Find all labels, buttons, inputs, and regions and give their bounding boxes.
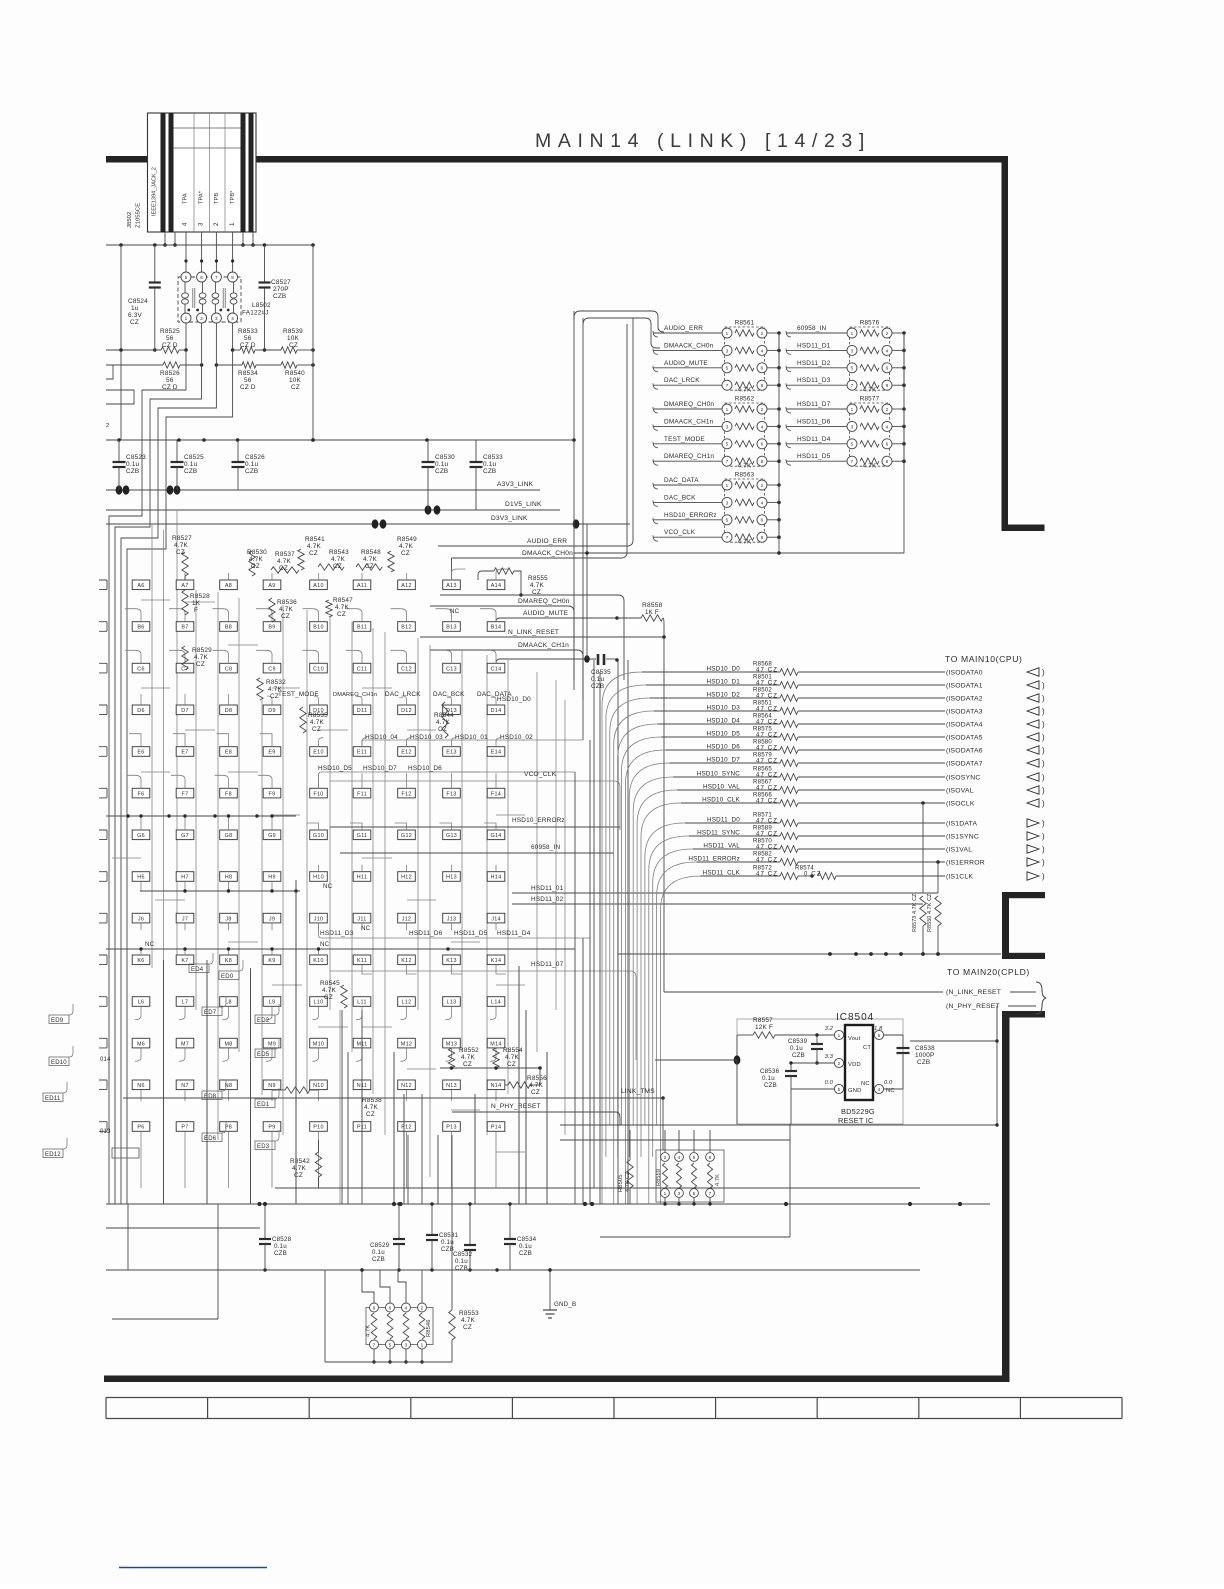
svg-text:R8533: R8533 (238, 328, 258, 335)
wire HSD10_D2 resistor R8502 47 CZ to ISODATA2 (610, 698, 650, 1125)
svg-text:1000P: 1000P (915, 1052, 934, 1059)
svg-text:47 CZ: 47 CZ (756, 871, 778, 878)
pin E13 (443, 747, 461, 757)
svg-text:2: 2 (838, 1061, 841, 1066)
wire HSD11_CLK resistor R8572 47 CZ to IS1CLK (661, 876, 701, 1204)
pin H14 (487, 872, 505, 882)
pin B14 (487, 622, 505, 632)
svg-text:3: 3 (851, 348, 854, 353)
svg-text:HSD10_D6: HSD10_D6 (408, 765, 442, 772)
svg-text:P12: P12 (401, 1125, 412, 1131)
pin E8 (220, 747, 238, 757)
svg-text:R8539: R8539 (283, 328, 303, 335)
svg-text:4.7K: 4.7K (399, 543, 413, 550)
svg-text:ED6: ED6 (204, 1136, 217, 1142)
svg-text:HSD10_ERRORz: HSD10_ERRORz (512, 817, 565, 824)
pin B12 (398, 622, 416, 632)
svg-text:CZ: CZ (401, 550, 410, 557)
pin D11 (353, 705, 371, 715)
svg-text:4: 4 (761, 500, 764, 505)
resistor R8548 4.7K CZ (356, 564, 382, 570)
capacitor C8523 0.1u CZB (118, 440, 120, 461)
wire AUDIO_ERR (438, 545, 627, 547)
wire lower bus verticals (163, 960, 165, 1204)
pin H13 (443, 872, 461, 882)
svg-text:R8536: R8536 (277, 599, 297, 606)
connector brace to MAIN20 (1036, 982, 1046, 1014)
svg-text:4.7K: 4.7K (307, 543, 321, 550)
svg-text:N6: N6 (137, 1083, 145, 1089)
svg-text:(IS1VAL: (IS1VAL (946, 847, 972, 854)
svg-text:F12: F12 (401, 791, 411, 797)
svg-text:H9: H9 (268, 875, 276, 881)
svg-text:4: 4 (761, 348, 764, 353)
svg-text:C11: C11 (357, 666, 367, 672)
svg-text:60958_IN: 60958_IN (797, 325, 827, 332)
wire M13 M14 node rail (440, 1067, 540, 1069)
wire HSD11_D0 resistor R8571 47 CZ to IS1DATA (645, 823, 685, 1125)
svg-text:R8576: R8576 (860, 320, 880, 327)
pin F7 (176, 788, 194, 798)
resistor R8543 4.7K CZ (318, 564, 344, 570)
resistor R8538 4.7K CZ (272, 1089, 285, 1091)
R8546 element pin 6-5 (386, 1303, 395, 1312)
svg-text:L13: L13 (447, 1000, 457, 1006)
svg-text:6: 6 (200, 275, 203, 280)
svg-text:6: 6 (389, 1305, 392, 1310)
pin M13 (443, 1038, 461, 1048)
svg-text:4.7K: 4.7K (277, 558, 291, 565)
pin D13 (443, 705, 461, 715)
svg-text:CZB: CZB (483, 468, 496, 475)
svg-text:(IS1ERROR: (IS1ERROR (946, 860, 985, 867)
svg-text:R8543: R8543 (329, 549, 349, 556)
label ED3 (255, 1141, 275, 1150)
pin B9 (263, 622, 281, 632)
svg-text:AUDIO_ERR: AUDIO_ERR (527, 538, 567, 545)
pin N13 (443, 1080, 461, 1090)
svg-text:G14: G14 (490, 833, 501, 839)
wire TPA pair staircase (109, 350, 186, 1204)
svg-text:L14: L14 (491, 1000, 501, 1006)
wire left vertical x121 (120, 245, 122, 440)
wire ISOCLK branch to R8573 (921, 801, 925, 805)
svg-text:G8: G8 (225, 833, 233, 839)
svg-text:4.7K: 4.7K (279, 606, 293, 613)
svg-text:5: 5 (851, 442, 854, 447)
svg-text:R8552: R8552 (459, 1047, 479, 1054)
svg-text:6: 6 (886, 442, 889, 447)
svg-text:CZB: CZB (372, 1256, 385, 1263)
svg-text:47 CZ: 47 CZ (756, 798, 778, 805)
svg-text:F: F (194, 607, 198, 614)
svg-text:CZ: CZ (463, 1061, 472, 1068)
svg-text:): ) (1042, 872, 1045, 881)
svg-text:NC: NC (361, 925, 371, 932)
svg-text:D7: D7 (181, 708, 189, 714)
svg-text:CZ: CZ (196, 661, 205, 668)
resistor R8535 4.7K CZ (300, 707, 306, 733)
svg-text:A14: A14 (491, 583, 502, 589)
pin K13 (443, 955, 461, 965)
label ED5 (255, 1049, 275, 1058)
pin J9 (263, 913, 281, 923)
resistor R8553 4.7K CZ (451, 1188, 453, 1310)
svg-text:7: 7 (373, 1342, 376, 1347)
svg-text:4.7K: 4.7K (363, 556, 377, 563)
svg-text:F8: F8 (225, 791, 232, 797)
svg-text:L10: L10 (314, 1000, 324, 1006)
svg-text:1: 1 (838, 1033, 841, 1038)
svg-text:A6: A6 (137, 583, 144, 589)
hyperlink underline (119, 1567, 267, 1569)
svg-text:HSD11_D5: HSD11_D5 (454, 930, 488, 937)
svg-text:J7: J7 (182, 916, 188, 922)
cut box bottom-left (112, 1148, 139, 1158)
svg-text:D12: D12 (401, 708, 412, 714)
svg-text:N13: N13 (446, 1083, 457, 1089)
svg-text:2: 2 (761, 407, 764, 412)
svg-text:P13: P13 (446, 1125, 457, 1131)
svg-text:NC: NC (861, 1081, 870, 1087)
pin C10 (310, 663, 328, 673)
svg-text:TPB: TPB (214, 193, 220, 204)
svg-text:2: 2 (886, 407, 889, 412)
svg-text:CZB: CZB (274, 1250, 287, 1257)
wire HSD10_D0 resistor R8568 47 CZ to ISODATA0 (602, 672, 642, 1204)
wire bus hooks to resistor arrays (574, 311, 664, 332)
wire K-row NC rail (106, 948, 575, 950)
svg-text:1: 1 (229, 222, 236, 226)
label ED10 (49, 1057, 69, 1066)
wire HSD10_D5 resistor R8575 47 CZ to ISODATA5 (622, 737, 662, 1125)
wire DMAREQ_CH0n (430, 605, 568, 607)
svg-text:DAC_BCK: DAC_BCK (664, 494, 696, 501)
svg-text:47 CZ: 47 CZ (756, 667, 778, 674)
wire vertical node x313 (312, 245, 314, 440)
svg-text:2: 2 (761, 483, 764, 488)
svg-text:G13: G13 (446, 833, 457, 839)
resistor R8534 56 CZ D (215, 363, 219, 367)
svg-text:B10: B10 (313, 625, 324, 631)
wire N_PHY route (452, 1111, 616, 1113)
svg-text:H14: H14 (491, 875, 502, 881)
pin P12 (398, 1122, 416, 1132)
svg-text:(ISODATA2: (ISODATA2 (946, 696, 983, 703)
pin E10 (310, 747, 328, 757)
svg-text:K6: K6 (137, 958, 144, 964)
svg-text:DMAACK_CH0n: DMAACK_CH0n (664, 342, 714, 349)
wire bottom-left branch (217, 1204, 219, 1319)
svg-text:E14: E14 (491, 750, 502, 756)
svg-text:D14: D14 (491, 708, 502, 714)
svg-text:HSD11_D1: HSD11_D1 (797, 342, 831, 349)
svg-text:H13: H13 (446, 875, 457, 881)
pin F11 (353, 788, 371, 798)
svg-text:0.1u: 0.1u (126, 461, 139, 468)
svg-text:R8553: R8553 (459, 1310, 479, 1317)
svg-text:L8502: L8502 (252, 302, 271, 309)
svg-text:4.7K CZ: 4.7K CZ (625, 1171, 631, 1192)
svg-text:LINK_TMS: LINK_TMS (621, 1088, 655, 1095)
svg-text:DMAACK_CH1n: DMAACK_CH1n (664, 418, 714, 425)
svg-text:1: 1 (726, 483, 729, 488)
resistor R8556 4.7K CZ (505, 1084, 508, 1086)
svg-text:5: 5 (726, 518, 729, 523)
svg-text:HSD10_ERRORz: HSD10_ERRORz (664, 512, 717, 519)
svg-text:J6: J6 (138, 916, 144, 922)
svg-text:CZ D: CZ D (240, 342, 256, 349)
svg-text:47 CZ: 47 CZ (756, 831, 778, 838)
svg-text:TEST_MODE: TEST_MODE (278, 691, 319, 698)
svg-text:3: 3 (726, 348, 729, 353)
connector J8502 IEEE1394_JACK_2 (148, 113, 257, 232)
svg-text:4.7K: 4.7K (715, 1174, 721, 1186)
pin J8 (220, 913, 238, 923)
svg-text:HSD11_D5: HSD11_D5 (797, 453, 831, 460)
svg-text:0.1u: 0.1u (790, 1045, 803, 1052)
svg-text:ED7: ED7 (204, 1010, 217, 1016)
pin H8 (220, 872, 238, 882)
svg-text:F6: F6 (138, 791, 145, 797)
svg-text:6: 6 (693, 1155, 696, 1160)
svg-text:(ISODATA0: (ISODATA0 (946, 670, 983, 677)
svg-text:J12: J12 (402, 916, 412, 922)
svg-text:56: 56 (244, 377, 252, 384)
svg-text:3: 3 (851, 424, 854, 429)
wire top rail (106, 244, 313, 246)
svg-text:M7: M7 (181, 1041, 189, 1047)
svg-text:D11: D11 (357, 708, 367, 714)
svg-text:R8505: R8505 (618, 1174, 624, 1192)
svg-text:): ) (1042, 668, 1045, 677)
svg-text:CZ: CZ (289, 342, 298, 349)
svg-text:HSD11_SYNC: HSD11_SYNC (697, 830, 740, 837)
border right lower bar (1002, 1011, 1010, 1382)
svg-text:(IS1DATA: (IS1DATA (946, 821, 977, 828)
svg-text:H6: H6 (137, 875, 145, 881)
svg-text:D8: D8 (225, 708, 233, 714)
svg-text:TPA: TPA (183, 193, 189, 204)
R8546 element pin 8-7 (370, 1303, 379, 1312)
IC8504 pin 1 Vout (834, 1030, 843, 1039)
svg-text:47 CZ: 47 CZ (756, 745, 778, 752)
svg-text:0.1u: 0.1u (435, 461, 448, 468)
pin E9 (263, 747, 281, 757)
svg-text:P14: P14 (491, 1125, 502, 1131)
svg-text:J8502: J8502 (127, 212, 133, 228)
svg-text:(ISOSYNC: (ISOSYNC (946, 775, 980, 782)
svg-text:DMAACK_CH1n: DMAACK_CH1n (518, 642, 569, 649)
svg-text:HSD11_D6: HSD11_D6 (409, 930, 443, 937)
wire network bottom rail (325, 1361, 452, 1363)
svg-text:0.1u: 0.1u (519, 1243, 532, 1250)
resistor network R8562 4.7K (725, 403, 765, 466)
svg-text:E8: E8 (225, 750, 232, 756)
svg-text:1: 1 (726, 407, 729, 412)
resistor network R8576 4.7K (850, 327, 890, 390)
svg-text:HSD11_D3: HSD11_D3 (320, 930, 354, 937)
svg-text:56: 56 (244, 335, 252, 342)
label ED9 (49, 1015, 69, 1024)
wire rail y1204 main (106, 1203, 990, 1205)
svg-text:E13: E13 (446, 750, 457, 756)
svg-text:R8528: R8528 (190, 593, 210, 600)
svg-text:N12: N12 (401, 1083, 412, 1089)
svg-text:CZ: CZ (176, 549, 185, 556)
svg-text:F9: F9 (269, 791, 276, 797)
IC8504 pin 6 CT (874, 1030, 883, 1039)
svg-text:7: 7 (726, 459, 729, 464)
svg-text:R8549: R8549 (397, 536, 417, 543)
svg-text:56: 56 (166, 335, 174, 342)
svg-text:DAC_BCK: DAC_BCK (433, 691, 465, 698)
svg-text:4.7K: 4.7K (322, 987, 336, 994)
resistor R8526 56 CZ D (200, 363, 204, 367)
svg-text:C12: C12 (401, 666, 412, 672)
resistor R8554 4.7K CZ (493, 1048, 499, 1068)
svg-text:E11: E11 (357, 750, 367, 756)
svg-text:CT: CT (863, 1045, 871, 1051)
svg-text:47 CZ: 47 CZ (756, 706, 778, 713)
svg-text:CZB: CZB (126, 468, 139, 475)
svg-text:R8547: R8547 (333, 597, 353, 604)
pin H11 (353, 872, 371, 882)
svg-text:1: 1 (664, 1191, 667, 1196)
svg-text:ED12: ED12 (45, 1152, 61, 1158)
pin B10 (310, 622, 328, 632)
svg-text:CZ: CZ (463, 1324, 472, 1331)
svg-text:270P: 270P (273, 286, 289, 293)
pin N7 (176, 1080, 194, 1090)
pin D6 (132, 705, 150, 715)
svg-text:R8563: R8563 (735, 472, 755, 479)
svg-text:0.1u: 0.1u (483, 461, 496, 468)
svg-text:HSD10_D1: HSD10_D1 (707, 679, 741, 686)
svg-text:4: 4 (678, 1155, 681, 1160)
svg-text:1: 1 (851, 331, 854, 336)
svg-text:HSD11_D0: HSD11_D0 (707, 817, 740, 824)
svg-text:1K F: 1K F (645, 609, 659, 616)
svg-text:C8524: C8524 (128, 298, 148, 305)
pin M12 (398, 1038, 416, 1048)
wire middle bus verticals (573, 311, 575, 690)
pin J11 (353, 913, 371, 923)
pin M6 (132, 1038, 150, 1048)
svg-text:C10: C10 (313, 666, 324, 672)
svg-text:ED2: ED2 (257, 1018, 270, 1024)
svg-text:B12: B12 (401, 625, 412, 631)
svg-text:CZB: CZB (792, 1052, 805, 1059)
pin F12 (398, 788, 416, 798)
svg-text:3: 3 (726, 424, 729, 429)
svg-text:K11: K11 (357, 958, 367, 964)
svg-text:47 CZ: 47 CZ (756, 758, 778, 765)
resistor R8529 4.7K CZ (182, 646, 188, 670)
pin J7 (176, 913, 194, 923)
pin B13 (443, 622, 461, 632)
IC8504 pin 4 NC (874, 1084, 883, 1093)
pin M11 (353, 1038, 371, 1048)
svg-text:F7: F7 (182, 791, 189, 797)
capacitor C8531 0.1u CZB (431, 1204, 433, 1234)
svg-text:47 CZ: 47 CZ (756, 732, 778, 739)
table title block strip (106, 1397, 1122, 1399)
svg-text:K14: K14 (491, 958, 502, 964)
svg-text:(ISOCLK: (ISOCLK (946, 801, 975, 808)
svg-text:0.0: 0.0 (884, 1080, 893, 1086)
pin A6 (132, 580, 150, 590)
svg-text:2: 2 (886, 331, 889, 336)
svg-text:HSD10_D7: HSD10_D7 (363, 765, 397, 772)
svg-text:CZ: CZ (130, 319, 139, 326)
svg-text:0.1u: 0.1u (245, 461, 258, 468)
resistor R8573 4.7K CZ vertical (920, 896, 926, 926)
svg-text:4.7K: 4.7K (461, 1054, 475, 1061)
pin A8 (220, 580, 238, 590)
pin P10 (310, 1122, 328, 1132)
svg-text:M10: M10 (313, 1041, 324, 1047)
border right bracket upper foot (1002, 892, 1045, 898)
svg-text:D9: D9 (268, 708, 276, 714)
svg-text:A7: A7 (181, 583, 188, 589)
resistor R8541 4.7K CZ (298, 549, 304, 570)
svg-text:M12: M12 (401, 1041, 412, 1047)
pin J13 (443, 913, 461, 923)
svg-text:VDD: VDD (848, 1062, 861, 1068)
wire HSD11_SYNC resistor R8589 47 CZ to IS1SYNC (649, 836, 689, 1204)
pin F8 (220, 788, 238, 798)
pin E7 (176, 747, 194, 757)
pin A11 (353, 580, 371, 590)
svg-text:013: 013 (100, 1129, 111, 1135)
svg-text:0.1u: 0.1u (274, 1243, 287, 1250)
resistor R8533 56 CZ D (231, 348, 235, 352)
svg-text:C8523: C8523 (126, 454, 146, 461)
svg-text:HSD10_SYNC: HSD10_SYNC (697, 771, 741, 778)
border right lower segment foot (1002, 1011, 1045, 1018)
svg-text:6: 6 (761, 518, 764, 523)
capacitor C8535 0.1u CZB (496, 659, 500, 663)
svg-text:5: 5 (838, 1087, 841, 1092)
svg-text:K8: K8 (225, 958, 232, 964)
pin P11 (353, 1122, 371, 1132)
svg-text:L11: L11 (357, 1000, 367, 1006)
svg-text:CZB: CZB (184, 468, 197, 475)
pin A10 (310, 580, 328, 590)
svg-text:NC: NC (323, 883, 333, 890)
svg-text:DAC_LRCK: DAC_LRCK (385, 691, 421, 698)
svg-text:R8546: R8546 (426, 1319, 432, 1337)
pin G8 (220, 830, 238, 840)
border top-right segment (255, 156, 1008, 163)
svg-text:H11: H11 (357, 875, 367, 881)
svg-text:R8548: R8548 (361, 549, 381, 556)
svg-text:8: 8 (886, 383, 889, 388)
svg-text:ED3: ED3 (257, 1144, 270, 1150)
border bottom (104, 1376, 1010, 1383)
svg-text:CZ D: CZ D (240, 384, 256, 391)
pin C12 (398, 663, 416, 673)
svg-text:A13: A13 (446, 583, 457, 589)
wire Vout node (736, 1035, 738, 1060)
svg-text:6: 6 (886, 366, 889, 371)
svg-text:B13: B13 (446, 625, 457, 631)
svg-text:47 CZ: 47 CZ (756, 772, 778, 779)
svg-text:1.8: 1.8 (874, 1026, 883, 1032)
wire DMAACK_CH0n (451, 558, 453, 580)
wire row-A right rail (440, 594, 618, 596)
